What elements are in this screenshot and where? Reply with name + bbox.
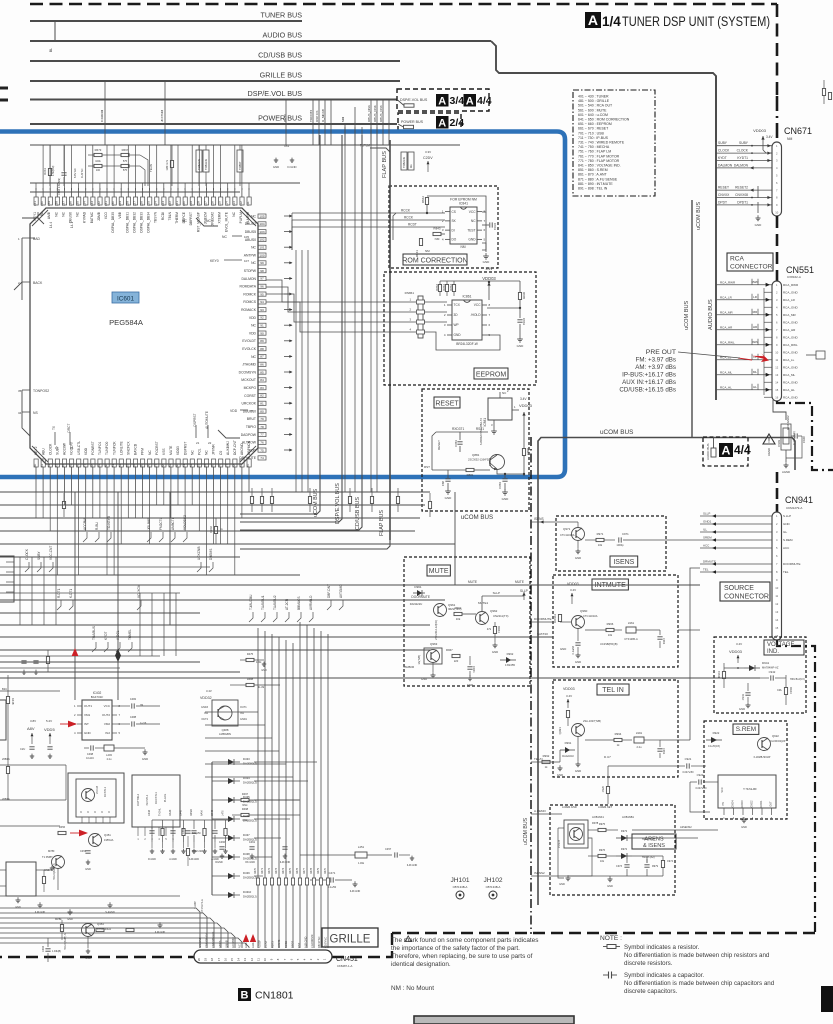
- svg-text:AVRMB-D: AVRMB-D: [309, 595, 313, 610]
- svg-text:GND: GND: [261, 669, 267, 672]
- black arrow 2: [117, 650, 119, 700]
- svg-text:ACC: ACC: [703, 544, 710, 548]
- svg-text:Q962: Q962: [490, 609, 498, 613]
- pin row bottom (pins 40-72): [33, 440, 251, 492]
- svg-text:DRCT: DRCT: [67, 424, 71, 433]
- svg-text:R44B: R44B: [11, 698, 15, 705]
- transistor T1 PM8T: [52, 856, 65, 869]
- svg-text:CD/USB BUS: CD/USB BUS: [258, 51, 302, 60]
- svg-text:JDMB: JDMB: [97, 211, 101, 221]
- page border jog dash-dot: [777, 401, 833, 470]
- svg-text:S-80842CNMC-B8A-T2: S-80842CNMC-B8A-T2: [479, 417, 483, 445]
- svg-text:BBMACS: BBMACS: [297, 597, 301, 610]
- svg-text:10: 10: [263, 958, 267, 962]
- svg-text:URCKOK: URCKOK: [241, 402, 256, 406]
- svg-text:CONNECTOR: CONNECTOR: [724, 594, 769, 601]
- svg-text:BAYCD: BAYCD: [134, 443, 138, 455]
- svg-text:DBPMCK: DBPMCK: [247, 440, 251, 455]
- svg-text:C961: C961: [472, 666, 476, 673]
- red service arrow 3: [79, 830, 88, 837]
- svg-text:R476: R476: [296, 867, 299, 874]
- svg-text:VCC: VCC: [104, 704, 111, 708]
- svg-text:AOB1NB1: AOB1NB1: [622, 815, 635, 819]
- svg-text:1.49k: 1.49k: [358, 862, 365, 865]
- svg-text:DBPMUTE: DBPMUTE: [239, 456, 256, 460]
- svg-text:MCKPG: MCKPG: [244, 386, 257, 390]
- capacitor C942: [770, 675, 772, 680]
- svg-text:RESET: RESET: [437, 440, 441, 450]
- svg-text:68: 68: [232, 464, 236, 468]
- svg-text:14: 14: [775, 380, 778, 384]
- corner diagonal marks: [32, 210, 48, 226]
- svg-text:C991: C991: [662, 748, 666, 755]
- inductor L991: [634, 737, 644, 743]
- svg-text:A.REMO: A.REMO: [534, 809, 547, 813]
- continuation box DSP/E.VOL BUS A3/4 A4/4: [397, 89, 489, 111]
- svg-text:78: 78: [260, 425, 264, 429]
- svg-text:C971: C971: [622, 532, 629, 536]
- svg-text:CTC1143UA: CTC1143UA: [583, 614, 598, 618]
- svg-text:GND2: GND2: [751, 800, 754, 808]
- svg-text:CLOCK: CLOCK: [737, 149, 749, 153]
- svg-text:21: 21: [196, 441, 200, 445]
- svg-text:& ISENS: & ISENS: [643, 843, 665, 849]
- continuation box POWER BUS A2/4: [398, 113, 461, 131]
- resistor vertical 4.7k: [170, 161, 173, 168]
- svg-text:RCA_ML: RCA_ML: [720, 370, 733, 374]
- svg-text:112: 112: [239, 201, 243, 206]
- svg-text:CTF1286-A: CTF1286-A: [624, 637, 638, 641]
- svg-text:RCA_GND: RCA_GND: [783, 305, 799, 309]
- svg-text:DSP/E.VOL BUS: DSP/E.VOL BUS: [400, 98, 428, 102]
- svg-text:SUBY: SUBY: [739, 141, 749, 145]
- left bottom pins TONPOS2/TX/DRCT: [22, 389, 30, 391]
- svg-text:40: 40: [33, 464, 37, 468]
- svg-text:OUT2: OUT2: [102, 713, 110, 717]
- page border top: [30, 3, 777, 6]
- wire uCOM BUS vertical: [240, 135, 320, 514]
- capacitor C921: [686, 763, 688, 768]
- svg-text:MA784WF-AZ: MA784WF-AZ: [762, 666, 779, 670]
- svg-text:93: 93: [260, 308, 264, 312]
- svg-text:220: 220: [454, 659, 459, 663]
- svg-text:TBPIO: TBPIO: [246, 425, 257, 429]
- svg-text:TO-KEYB: TO-KEYB: [107, 516, 111, 530]
- svg-text:7R: 7R: [140, 704, 143, 707]
- svg-text:BACK: BACK: [33, 281, 43, 285]
- svg-text:TDCNT2: TDCNT2: [309, 110, 313, 122]
- svg-text:3.4V: 3.4V: [566, 694, 572, 698]
- section marker A2/4: [436, 116, 449, 129]
- svg-text:PN: PN: [722, 802, 725, 806]
- svg-text:GND: GND: [84, 731, 92, 735]
- svg-text:SAT/NO: SAT/NO: [537, 632, 549, 636]
- bus line AUDIO BUS: [30, 40, 491, 42]
- svg-text:881 ~ 890 : INT.MUTE: 881 ~ 890 : INT.MUTE: [578, 182, 613, 186]
- section marker corner (cut): [821, 986, 833, 1012]
- svg-text:AKOND: AKOND: [240, 443, 244, 455]
- svg-text:GND3: GND3: [201, 706, 209, 709]
- svg-text:ILM.GND: ILM.GND: [35, 911, 46, 914]
- svg-text:101: 101: [259, 246, 264, 250]
- svg-text:KYDT: KYDT: [104, 631, 108, 640]
- svg-text:14.1: 14.1: [70, 222, 74, 228]
- svg-text:R478: R478: [310, 867, 313, 874]
- svg-text:VDD03: VDD03: [519, 403, 533, 408]
- svg-text:OUT: OUT: [770, 801, 773, 807]
- svg-text:GND: GND: [445, 496, 453, 500]
- svg-text:FM2CTL: FM2CTL: [159, 517, 163, 530]
- wire CN451 left feeders: [0, 908, 249, 948]
- svg-text:uCOM BUS: uCOM BUS: [684, 301, 690, 330]
- label VOLTAGE IND.: [764, 640, 804, 655]
- ground symbols bottom-left: [17, 897, 19, 900]
- wire analog left nets: [0, 765, 180, 896]
- svg-text:VDD3: VDD3: [176, 446, 180, 455]
- svg-text:69: 69: [239, 464, 243, 468]
- svg-text:17: 17: [55, 446, 59, 450]
- svg-text:ILL: ILL: [783, 530, 788, 534]
- ground S.REM area: [743, 817, 745, 820]
- bus line GRILLE BUS: [30, 80, 400, 82]
- svg-text:761 ~ 770 : FLAP MOTOR: 761 ~ 770 : FLAP MOTOR: [578, 154, 620, 158]
- block MUTE dashed box: [404, 557, 530, 686]
- svg-text:89: 89: [260, 339, 264, 343]
- svg-text:C496NM: C496NM: [100, 109, 104, 122]
- svg-text:DSP CS: DSP CS: [315, 111, 319, 122]
- svg-text:PRE OUT: PRE OUT: [646, 349, 676, 356]
- inductor L961: [626, 627, 636, 633]
- svg-text:GND: GND: [575, 556, 581, 560]
- svg-text:INT: INT: [84, 722, 89, 726]
- svg-text:C883: C883: [498, 482, 502, 489]
- connector CN551: [772, 281, 782, 401]
- svg-text:CD/USB BUS: CD/USB BUS: [355, 497, 361, 530]
- resistor R966: [606, 628, 614, 631]
- svg-text:3.4V: 3.4V: [570, 588, 576, 592]
- svg-text:VDD03: VDD03: [482, 276, 496, 281]
- vertical wires bus->IC top: [36, 81, 389, 190]
- svg-text:TUNPO1: TUNPO1: [98, 441, 102, 455]
- capacitor C841: [482, 224, 489, 226]
- right bottom internal pins DSPRST/AUTOMUTE: [218, 430, 240, 438]
- page border right: [776, 4, 779, 96]
- wire uCOM BUS horizontal: [538, 438, 795, 906]
- svg-text:GND: GND: [67, 918, 73, 921]
- bus line DSP/E.VOL BUS: [30, 99, 397, 101]
- diode D941: [744, 667, 760, 669]
- svg-text:/HOLD: /HOLD: [471, 313, 481, 317]
- resistor pull-up at 372,500: [370, 497, 373, 504]
- svg-text:RCK3: RCK3: [284, 941, 288, 948]
- label INTMUTE: [592, 579, 628, 590]
- wire DSP/E.VOL BUS vertical: [240, 135, 342, 522]
- svg-text:MCKOUT: MCKOUT: [241, 378, 256, 382]
- svg-text:SOURCE: SOURCE: [724, 585, 754, 592]
- svg-text:NC: NC: [238, 944, 242, 948]
- svg-text:9G: 9G: [409, 164, 413, 168]
- red service arrow into IC402 pin3: [68, 721, 77, 728]
- capacitor C471: [330, 877, 332, 882]
- svg-text:NC: NC: [61, 211, 65, 216]
- svg-text:48: 48: [90, 464, 94, 468]
- svg-text:J.ACDKNM: J.ACDKNM: [310, 935, 314, 948]
- svg-text:100: 100: [96, 169, 101, 172]
- svg-text:15: 15: [775, 388, 778, 392]
- svg-text:C949: C949: [777, 440, 781, 447]
- svg-text:91: 91: [260, 324, 264, 328]
- svg-text:GND: GND: [607, 884, 613, 888]
- svg-text:ML: ML: [753, 370, 757, 374]
- svg-text:C2DV: C2DV: [423, 156, 433, 160]
- svg-text:C457: C457: [385, 847, 392, 851]
- svg-text:HOLD(AMP)-S: HOLD(AMP)-S: [53, 863, 56, 880]
- op-amp U5 : photocoupler PC941: [564, 820, 588, 848]
- svg-text:R673: R673: [95, 148, 102, 152]
- svg-text:PEG584A: PEG584A: [109, 318, 144, 327]
- svg-text:52: 52: [118, 464, 122, 468]
- svg-text:U61: U61: [284, 144, 290, 148]
- svg-text:3.4V: 3.4V: [736, 642, 742, 646]
- svg-text:L991: L991: [636, 731, 643, 735]
- svg-text:EVOLDT: EVOLDT: [242, 339, 256, 343]
- transistor Q963 pair: [424, 648, 442, 664]
- svg-text:14: 14: [237, 958, 241, 962]
- svg-text:0.047u/50: 0.047u/50: [695, 787, 707, 790]
- svg-text:129: 129: [118, 201, 122, 206]
- svg-text:127: 127: [132, 201, 136, 206]
- svg-text:BATMC: BATMC: [90, 211, 94, 223]
- svg-text:C498: C498: [87, 752, 94, 756]
- svg-text:NOTE :: NOTE :: [600, 935, 622, 942]
- svg-text:VOLTAGE: VOLTAGE: [767, 642, 794, 648]
- svg-text:R475: R475: [247, 652, 254, 656]
- svg-text:DALMON: DALMON: [241, 277, 256, 281]
- resistor pull-up at 252,500: [250, 497, 253, 504]
- resistor R881: [466, 468, 474, 471]
- svg-text:D991: D991: [565, 741, 572, 745]
- svg-text:DAA234U: DAA234U: [562, 754, 574, 758]
- svg-text:TUA/BUS: TUA/BUS: [92, 626, 96, 640]
- wires CN551 RCA signals: [716, 279, 799, 400]
- svg-text:17: 17: [217, 958, 221, 962]
- svg-text:RCDT: RCDT: [408, 223, 417, 227]
- resistor R964: [493, 627, 496, 634]
- diode D991: [560, 749, 575, 751]
- svg-text:ANTPW: ANTPW: [244, 253, 257, 257]
- svg-text:R863: R863: [442, 284, 446, 291]
- svg-text:641 ~ 650 : ROM CORRECTION: 641 ~ 650 : ROM CORRECTION: [578, 118, 630, 122]
- svg-text:VCC: VCC: [474, 303, 481, 307]
- svg-text:MR: MR: [753, 310, 758, 314]
- svg-text:891 ~ 898 : TEL IN: 891 ~ 898 : TEL IN: [578, 187, 608, 191]
- svg-text:R498: R498: [242, 807, 249, 811]
- svg-text:D.GND: D.GND: [148, 858, 156, 861]
- svg-text:STDPW: STDPW: [244, 269, 257, 273]
- svg-text:R992: R992: [543, 754, 550, 758]
- resistor R961: [558, 615, 561, 622]
- svg-text:KYDT1: KYDT1: [737, 156, 748, 160]
- svg-text:CS: CS: [452, 210, 456, 214]
- svg-text:TEL: TEL: [783, 570, 789, 574]
- svg-text:R971: R971: [597, 532, 604, 536]
- svg-text:GND: GND: [85, 957, 91, 960]
- wire MUTE->CN941 links: [528, 584, 700, 586]
- svg-text:79: 79: [260, 417, 264, 421]
- svg-text:UN2211(TX): UN2211(TX): [493, 614, 509, 618]
- svg-text:R470: R470: [324, 867, 327, 874]
- diode D962: [500, 659, 516, 661]
- svg-text:D922: D922: [713, 731, 720, 735]
- node IC601 (highlighted reference): [112, 292, 139, 303]
- block tuner AGC box 2: [132, 775, 180, 827]
- svg-text:uCOM BUS: uCOM BUS: [523, 817, 529, 845]
- svg-text:CT-PU7S-A: CT-PU7S-A: [200, 899, 204, 913]
- svg-text:1/4: 1/4: [602, 14, 621, 29]
- svg-text:122: 122: [168, 201, 172, 206]
- svg-text:PLAOL: PLAOL: [163, 793, 167, 802]
- svg-text:ABU: ABU: [41, 448, 45, 455]
- svg-text:TBLN: TBLN: [168, 211, 172, 220]
- svg-text:45: 45: [69, 464, 73, 468]
- svg-text:D434: D434: [243, 776, 250, 780]
- svg-text:ISENS: ISENS: [534, 517, 544, 521]
- svg-text:ROM CORRECTION: ROM CORRECTION: [402, 258, 467, 265]
- svg-text:DPDT: DPDT: [290, 941, 294, 948]
- wire RESET1: [436, 431, 488, 433]
- svg-text:TEL IN: TEL IN: [602, 687, 624, 694]
- svg-text:TONPOS2: TONPOS2: [33, 389, 49, 393]
- svg-text:0.1u/16: 0.1u/16: [572, 645, 575, 654]
- svg-text:CORST: CORST: [244, 394, 256, 398]
- ground GND CN671: [759, 213, 761, 218]
- right top internal pins NC/KEY0: [196, 218, 218, 226]
- page border bottom-right dash-dot: [777, 640, 815, 933]
- svg-text:5.2V: 5.2V: [46, 719, 52, 723]
- ground TEL IN: [577, 737, 579, 742]
- svg-text:103: 103: [259, 230, 264, 234]
- transistor Q881: [490, 455, 505, 470]
- svg-text:R667: R667: [122, 148, 129, 152]
- svg-text:A8V: A8V: [27, 726, 35, 731]
- continuation box AUDIO BUS A4/4: [703, 437, 748, 466]
- svg-text:TDB2CN: TDB2CN: [197, 159, 201, 170]
- svg-text:uCOM BUS: uCOM BUS: [313, 488, 319, 517]
- svg-text:PFM: PFM: [141, 448, 145, 455]
- block ARENS & ISENS dashed box: [550, 805, 675, 895]
- component row C443..C446 with grounds: [148, 807, 230, 861]
- svg-text:63: 63: [196, 464, 200, 468]
- op-amp U1 : IC841 EPROM: [450, 207, 477, 244]
- svg-text:SUBY: SUBY: [718, 141, 728, 145]
- svg-text:AT-2CN: AT-2CN: [285, 598, 289, 610]
- svg-text:TOMEL: TOMEL: [128, 629, 132, 640]
- svg-text:OUT1: OUT1: [84, 704, 92, 708]
- connector CN451: [194, 950, 332, 963]
- svg-text:64: 64: [203, 464, 207, 468]
- svg-text:47k: 47k: [487, 627, 492, 631]
- svg-text:BR24L32DF-W: BR24L32DF-W: [456, 342, 478, 346]
- red probe arrow RCA_LL pin 11: [752, 353, 769, 362]
- svg-text:DOORMUTE: DOORMUTE: [783, 562, 801, 566]
- svg-text:VDD: VDD: [249, 331, 257, 335]
- svg-text:RESET2: RESET2: [735, 186, 748, 190]
- svg-text:uCOM BUS: uCOM BUS: [696, 201, 702, 230]
- op-amp U3 : IC881 reset IC: [488, 398, 512, 420]
- svg-text:1A(T2B): 1A(T2B): [417, 655, 421, 665]
- svg-text:92: 92: [260, 316, 264, 320]
- resistor R975: [598, 828, 606, 831]
- resistor R648 and pull resistors: [214, 527, 217, 534]
- label ROM CORRECTION: [403, 254, 467, 265]
- svg-text:ILM.GND: ILM.GND: [407, 864, 418, 867]
- svg-text:CN1801: CN1801: [255, 990, 294, 1002]
- capacitor C971: [618, 537, 620, 542]
- svg-text:uCOM BUS: uCOM BUS: [600, 429, 633, 436]
- svg-text:87: 87: [260, 355, 264, 359]
- svg-text:12: 12: [775, 365, 778, 369]
- svg-text:1000p: 1000p: [616, 543, 624, 547]
- svg-text:15: 15: [230, 958, 234, 962]
- svg-text:R.ATNC: R.ATNC: [80, 168, 84, 178]
- svg-text:C2U: C2U: [20, 747, 25, 751]
- resistor R843: [433, 232, 441, 235]
- svg-text:C921: C921: [685, 757, 692, 761]
- svg-text:NC: NC: [206, 219, 211, 223]
- svg-text:M78F: M78F: [48, 849, 55, 853]
- svg-text:134: 134: [83, 201, 87, 206]
- svg-text:OUTTML2: OUTTML2: [136, 793, 140, 806]
- svg-text:86: 86: [260, 363, 264, 367]
- svg-text:CRL: CRL: [777, 689, 783, 692]
- svg-text:EEPROM: EEPROM: [476, 372, 507, 379]
- svg-text:GND: GND: [273, 165, 279, 169]
- svg-text:IC601: IC601: [117, 296, 134, 303]
- op-amp U6 : IC402 BA4701F: [82, 700, 112, 740]
- svg-text:CN451: CN451: [336, 956, 358, 963]
- ground GND IC841: [482, 243, 486, 252]
- svg-text:CB7134B-A: CB7134B-A: [453, 885, 468, 889]
- svg-text:JH102: JH102: [483, 877, 502, 884]
- svg-text:SUBY: SUBY: [37, 550, 41, 560]
- svg-text:NC: NC: [471, 219, 476, 223]
- svg-text:RCA_ML: RCA_ML: [783, 373, 796, 377]
- resistor pull-up at 272,500: [270, 497, 273, 504]
- svg-text:DBUS_CN3: DBUS_CN3: [379, 105, 383, 122]
- svg-text:GND1: GND1: [760, 800, 763, 808]
- pin row top (pins 141-110): [33, 188, 251, 233]
- svg-text:61: 61: [182, 464, 186, 468]
- svg-text:C460: C460: [219, 840, 226, 844]
- svg-text:10k: 10k: [456, 617, 461, 621]
- svg-text:84: 84: [260, 378, 264, 382]
- svg-text:D973: D973: [621, 829, 628, 833]
- svg-text:R474: R474: [282, 867, 285, 874]
- block EEPROM dashed box: [384, 272, 536, 385]
- svg-text:D.GND: D.GND: [287, 165, 296, 169]
- svg-text:Q453: Q453: [97, 922, 104, 926]
- svg-text:RCA_MR: RCA_MR: [720, 310, 734, 314]
- wire A.REMO entry: [531, 813, 562, 815]
- svg-text:56: 56: [147, 464, 151, 468]
- wire RCCK/RCDT into IC841: [398, 212, 445, 214]
- svg-text:661 ~ 670 : RESET: 661 ~ 670 : RESET: [578, 127, 609, 131]
- svg-text:D972: D972: [621, 847, 628, 851]
- red service arrow 1: [74, 650, 76, 700]
- svg-text:JPVNR: JPVNR: [212, 444, 216, 455]
- rotated labels above blue line: [100, 104, 383, 122]
- svg-text:RCA_HR: RCA_HR: [783, 328, 796, 332]
